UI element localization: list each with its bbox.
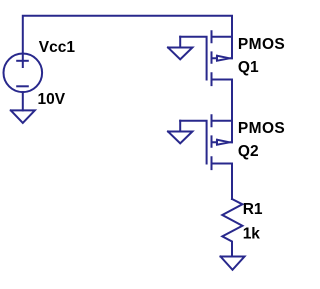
svg-text:R1: R1 [243, 201, 263, 218]
svg-text:Q1: Q1 [238, 59, 259, 76]
svg-text:10V: 10V [38, 91, 66, 108]
svg-text:1k: 1k [243, 226, 261, 243]
svg-text:PMOS: PMOS [238, 36, 285, 53]
svg-text:PMOS: PMOS [238, 120, 285, 137]
svg-text:Vcc1: Vcc1 [39, 39, 76, 56]
svg-text:Q2: Q2 [238, 143, 259, 160]
